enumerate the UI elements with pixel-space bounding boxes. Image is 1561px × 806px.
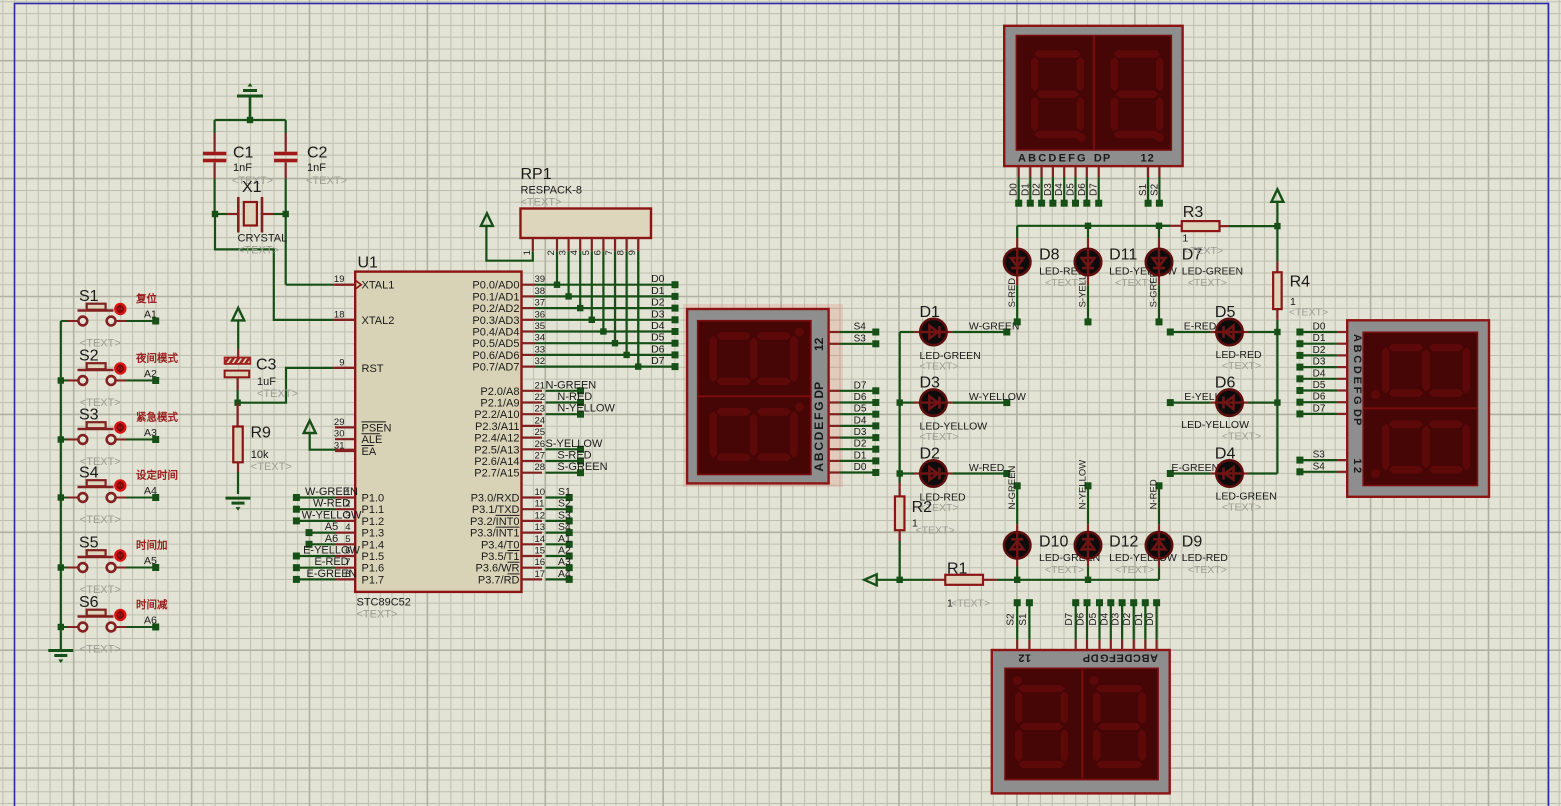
svg-text:W-YELLOW: W-YELLOW [969, 391, 1026, 403]
svg-text:38: 38 [535, 286, 546, 297]
svg-text:LED-RED: LED-RED [1182, 552, 1229, 564]
svg-text:9: 9 [627, 250, 638, 255]
svg-text:S5: S5 [79, 535, 99, 552]
svg-text:10: 10 [535, 487, 546, 498]
svg-text:S4: S4 [854, 322, 867, 333]
svg-text:S3: S3 [854, 333, 867, 344]
svg-text:S3: S3 [1313, 450, 1326, 461]
svg-text:<TEXT>: <TEXT> [1222, 502, 1261, 514]
svg-text:D3: D3 [854, 427, 867, 438]
svg-text:S2: S2 [79, 348, 99, 365]
svg-text:R2: R2 [912, 499, 933, 516]
svg-text:LED-YELLOW: LED-YELLOW [1181, 419, 1249, 431]
svg-text:23: 23 [535, 404, 546, 415]
svg-text:12: 12 [1141, 153, 1155, 165]
svg-text:13: 13 [535, 522, 546, 533]
svg-text:D1: D1 [920, 304, 941, 321]
svg-text:39: 39 [535, 274, 546, 285]
svg-text:16: 16 [535, 557, 546, 568]
svg-text:S2: S2 [558, 498, 571, 510]
svg-text:时间减: 时间减 [136, 598, 168, 611]
svg-text:4: 4 [345, 522, 350, 533]
svg-text:A4: A4 [144, 485, 157, 497]
svg-text:D4: D4 [651, 320, 665, 332]
svg-text:<TEXT>: <TEXT> [357, 609, 398, 621]
svg-text:36: 36 [535, 309, 546, 320]
svg-text:3: 3 [345, 510, 350, 521]
svg-text:P0.3/AD3: P0.3/AD3 [472, 315, 519, 327]
svg-text:D4: D4 [854, 415, 867, 426]
svg-text:6: 6 [592, 250, 603, 255]
svg-text:EA: EA [362, 446, 377, 458]
svg-text:S2: S2 [1006, 613, 1017, 626]
svg-text:A2: A2 [144, 368, 157, 380]
svg-text:35: 35 [535, 321, 546, 332]
svg-text:24: 24 [535, 415, 546, 426]
svg-text:S3: S3 [558, 509, 571, 521]
svg-text:C3: C3 [256, 357, 277, 374]
svg-text:A1: A1 [558, 533, 571, 545]
svg-text:D6: D6 [854, 392, 867, 403]
svg-text:N-YELLOW: N-YELLOW [557, 403, 615, 415]
svg-text:D3: D3 [1043, 183, 1054, 196]
svg-text:P2.6/A14: P2.6/A14 [474, 456, 519, 468]
svg-text:<TEXT>: <TEXT> [920, 361, 959, 373]
svg-text:P0.5/AD5: P0.5/AD5 [472, 338, 519, 350]
svg-text:P2.0/A8: P2.0/A8 [480, 386, 519, 398]
svg-text:PSEN: PSEN [362, 422, 392, 434]
svg-text:7: 7 [345, 557, 350, 568]
svg-text:D12: D12 [1109, 534, 1138, 551]
svg-text:D2: D2 [920, 446, 941, 463]
svg-text:2: 2 [345, 499, 350, 510]
svg-text:<TEXT>: <TEXT> [80, 644, 121, 656]
svg-text:A5: A5 [325, 521, 338, 533]
svg-text:D1: D1 [1134, 612, 1145, 625]
svg-text:N-RED: N-RED [1149, 479, 1160, 509]
svg-text:D7: D7 [854, 380, 867, 391]
svg-text:DP: DP [1094, 153, 1111, 165]
svg-text:12: 12 [1351, 458, 1363, 475]
svg-text:D5: D5 [1313, 380, 1326, 391]
svg-text:夜间模式: 夜间模式 [135, 352, 178, 365]
svg-text:34: 34 [535, 333, 546, 344]
svg-text:设定时间: 设定时间 [136, 469, 178, 482]
svg-text:<TEXT>: <TEXT> [1188, 277, 1227, 289]
svg-text:S6: S6 [79, 594, 99, 611]
svg-text:D1: D1 [1020, 183, 1031, 196]
svg-text:A2: A2 [558, 545, 571, 557]
svg-text:<TEXT>: <TEXT> [306, 175, 347, 187]
svg-text:R1: R1 [947, 561, 968, 578]
svg-text:D10: D10 [1039, 534, 1068, 551]
svg-text:D2: D2 [1032, 183, 1043, 196]
svg-text:D3: D3 [651, 308, 665, 320]
svg-text:A4: A4 [558, 568, 571, 580]
svg-text:D3: D3 [1111, 612, 1122, 625]
svg-text:D7: D7 [651, 355, 665, 367]
svg-text:5: 5 [345, 534, 350, 545]
svg-text:3: 3 [558, 250, 569, 255]
svg-text:D4: D4 [1054, 183, 1065, 196]
svg-text:<TEXT>: <TEXT> [1222, 360, 1261, 372]
svg-text:D0: D0 [1009, 183, 1020, 196]
svg-text:LED-GREEN: LED-GREEN [1182, 266, 1243, 278]
svg-text:P3.4/T0: P3.4/T0 [481, 539, 520, 551]
svg-text:26: 26 [535, 439, 546, 450]
svg-text:XTAL2: XTAL2 [362, 315, 395, 327]
svg-text:D1: D1 [1313, 333, 1326, 344]
svg-text:P2.4/A12: P2.4/A12 [474, 433, 519, 445]
svg-text:R3: R3 [1183, 204, 1204, 221]
svg-text:<TEXT>: <TEXT> [1184, 245, 1223, 257]
svg-text:9: 9 [339, 357, 344, 368]
svg-text:时间加: 时间加 [136, 539, 168, 552]
svg-text:X1: X1 [242, 179, 262, 196]
svg-text:RESPACK-8: RESPACK-8 [521, 185, 583, 197]
svg-text:N-GREEN: N-GREEN [1007, 465, 1018, 509]
svg-text:E-RED: E-RED [314, 556, 348, 568]
svg-text:D5: D5 [1088, 612, 1099, 625]
svg-text:D6: D6 [1076, 612, 1087, 625]
svg-text:19: 19 [334, 274, 345, 285]
svg-text:D3: D3 [1313, 357, 1326, 368]
svg-text:15: 15 [535, 546, 546, 557]
svg-text:25: 25 [535, 427, 546, 438]
svg-text:S4: S4 [79, 465, 99, 482]
svg-text:<TEXT>: <TEXT> [251, 461, 292, 473]
svg-text:29: 29 [334, 417, 345, 428]
svg-text:A1: A1 [144, 308, 157, 320]
svg-text:C1: C1 [233, 145, 254, 162]
svg-text:P3.1/TXD: P3.1/TXD [472, 504, 520, 516]
svg-text:12: 12 [1018, 652, 1031, 664]
svg-text:D0: D0 [1145, 612, 1156, 625]
svg-text:P1.1: P1.1 [362, 504, 385, 516]
svg-text:10k: 10k [251, 449, 269, 461]
svg-text:CRYSTAL: CRYSTAL [238, 233, 288, 245]
svg-text:W-RED: W-RED [969, 462, 1005, 474]
svg-text:P3.6/WR: P3.6/WR [475, 563, 519, 575]
svg-text:D1: D1 [651, 285, 665, 297]
svg-text:RP1: RP1 [521, 166, 552, 183]
svg-text:D0: D0 [854, 462, 867, 473]
svg-text:S-GREEN: S-GREEN [557, 461, 607, 473]
svg-text:P3.0/RXD: P3.0/RXD [471, 493, 520, 505]
svg-text:D5: D5 [651, 332, 665, 344]
svg-text:S2: S2 [1149, 183, 1160, 196]
svg-text:<TEXT>: <TEXT> [951, 598, 990, 610]
svg-text:17: 17 [535, 569, 546, 580]
svg-text:<TEXT>: <TEXT> [1188, 564, 1227, 576]
svg-text:A5: A5 [144, 555, 157, 567]
svg-text:S1: S1 [1018, 613, 1029, 626]
svg-text:A6: A6 [144, 614, 157, 626]
svg-text:P0.1/AD1: P0.1/AD1 [472, 291, 519, 303]
svg-text:ABCDEFG: ABCDEFG [1099, 652, 1158, 664]
svg-text:2: 2 [546, 250, 557, 255]
svg-text:紧急模式: 紧急模式 [136, 411, 178, 424]
svg-text:32: 32 [535, 356, 546, 367]
svg-text:DP: DP [1351, 409, 1363, 426]
svg-text:P0.4/AD4: P0.4/AD4 [472, 327, 519, 339]
svg-text:D5: D5 [854, 404, 867, 415]
svg-text:5: 5 [581, 250, 592, 255]
svg-text:P1.2: P1.2 [362, 516, 385, 528]
svg-text:1: 1 [345, 487, 350, 498]
svg-text:8: 8 [616, 250, 627, 255]
svg-text:S4: S4 [1313, 461, 1326, 472]
svg-text:P2.7/A15: P2.7/A15 [474, 468, 519, 480]
svg-text:<TEXT>: <TEXT> [238, 245, 279, 257]
svg-text:33: 33 [535, 344, 546, 355]
svg-text:<TEXT>: <TEXT> [1222, 431, 1261, 443]
svg-text:1nF: 1nF [307, 162, 326, 174]
svg-text:E-YELLOW: E-YELLOW [303, 545, 360, 557]
svg-text:S4: S4 [558, 521, 571, 533]
svg-text:D6: D6 [651, 343, 665, 355]
svg-text:D6: D6 [1215, 375, 1236, 392]
svg-text:E-GREEN: E-GREEN [1171, 462, 1219, 474]
svg-text:STC89C52: STC89C52 [357, 597, 411, 609]
svg-text:21: 21 [535, 380, 546, 391]
svg-text:22: 22 [535, 392, 546, 403]
svg-text:7: 7 [604, 250, 615, 255]
svg-text:ABCDEFG: ABCDEFG [812, 400, 826, 472]
svg-text:D5: D5 [1066, 183, 1077, 196]
svg-text:D2: D2 [1313, 345, 1326, 356]
svg-text:A3: A3 [144, 427, 157, 439]
svg-text:6: 6 [345, 546, 350, 557]
svg-text:U1: U1 [358, 255, 379, 272]
svg-text:8: 8 [345, 569, 350, 580]
svg-text:C2: C2 [307, 145, 328, 162]
svg-text:S-RED: S-RED [557, 450, 591, 462]
svg-text:A3: A3 [558, 556, 571, 568]
svg-text:W-GREEN: W-GREEN [969, 321, 1020, 333]
svg-text:P3.3/INT1: P3.3/INT1 [470, 528, 520, 540]
svg-text:1nF: 1nF [233, 162, 252, 174]
svg-text:D6: D6 [1077, 183, 1088, 196]
svg-text:D7: D7 [1064, 612, 1075, 625]
svg-text:P3.2/INT0: P3.2/INT0 [470, 516, 520, 528]
svg-text:P0.2/AD2: P0.2/AD2 [472, 303, 519, 315]
svg-text:S1: S1 [1138, 183, 1149, 196]
svg-text:12: 12 [812, 337, 826, 351]
svg-text:A6: A6 [325, 533, 338, 545]
svg-text:37: 37 [535, 298, 546, 309]
svg-text:P1.6: P1.6 [362, 563, 385, 575]
svg-text:28: 28 [535, 462, 546, 473]
svg-text:N-GREEN: N-GREEN [546, 379, 597, 391]
svg-text:P0.6/AD6: P0.6/AD6 [472, 350, 519, 362]
svg-text:R4: R4 [1290, 274, 1311, 291]
svg-text:<TEXT>: <TEXT> [1289, 307, 1328, 319]
svg-text:D5: D5 [1215, 304, 1236, 321]
svg-text:P3.5/T1: P3.5/T1 [481, 551, 520, 563]
svg-text:D2: D2 [854, 439, 867, 450]
svg-text:N-RED: N-RED [557, 391, 592, 403]
svg-text:14: 14 [535, 534, 546, 545]
svg-text:P2.3/A11: P2.3/A11 [475, 421, 519, 433]
svg-text:DP: DP [812, 382, 826, 399]
svg-text:P0.0/AD0: P0.0/AD0 [472, 280, 519, 292]
svg-text:D8: D8 [1039, 247, 1060, 264]
svg-text:D4: D4 [1313, 368, 1326, 379]
svg-text:1: 1 [522, 250, 533, 255]
svg-text:P1.3: P1.3 [362, 528, 385, 540]
svg-text:ABCDEFG: ABCDEFG [1351, 334, 1363, 407]
svg-text:D4: D4 [1215, 446, 1236, 463]
svg-text:<TEXT>: <TEXT> [80, 514, 121, 526]
svg-text:P1.0: P1.0 [362, 493, 385, 505]
svg-text:D4: D4 [1099, 612, 1110, 625]
svg-text:27: 27 [535, 451, 546, 462]
svg-text:D7: D7 [1089, 183, 1100, 196]
svg-text:S-YELLOW: S-YELLOW [546, 438, 603, 450]
svg-text:D7: D7 [1313, 403, 1326, 414]
svg-text:<TEXT>: <TEXT> [1115, 564, 1154, 576]
svg-text:<TEXT>: <TEXT> [920, 431, 959, 443]
svg-text:18: 18 [334, 309, 345, 320]
svg-text:D0: D0 [1313, 322, 1326, 333]
svg-text:N-YELLOW: N-YELLOW [1078, 460, 1089, 510]
svg-text:复位: 复位 [135, 292, 157, 305]
svg-text:P1.4: P1.4 [362, 539, 385, 551]
svg-text:S1: S1 [558, 486, 571, 498]
svg-text:11: 11 [535, 499, 545, 510]
svg-text:E-RED: E-RED [1184, 321, 1217, 333]
svg-text:P2.5/A13: P2.5/A13 [474, 444, 519, 456]
svg-text:D3: D3 [920, 375, 941, 392]
svg-text:DP: DP [1082, 652, 1098, 664]
svg-text:<TEXT>: <TEXT> [521, 197, 562, 209]
svg-text:P1.7: P1.7 [362, 574, 385, 586]
svg-text:D2: D2 [1122, 612, 1133, 625]
svg-text:P0.7/AD7: P0.7/AD7 [472, 362, 519, 374]
svg-text:P1.5: P1.5 [362, 551, 385, 563]
svg-text:RST: RST [362, 363, 384, 375]
svg-text:4: 4 [569, 250, 580, 255]
svg-text:D2: D2 [651, 297, 665, 309]
svg-text:1uF: 1uF [257, 376, 276, 388]
svg-text:<TEXT>: <TEXT> [916, 525, 955, 537]
svg-text:<TEXT>: <TEXT> [1045, 564, 1084, 576]
svg-text:ABCDEFG: ABCDEFG [1018, 153, 1088, 165]
svg-text:XTAL1: XTAL1 [362, 280, 395, 292]
svg-text:P2.1/A9: P2.1/A9 [480, 398, 519, 410]
svg-text:S-RED: S-RED [1007, 278, 1018, 308]
svg-text:P2.2/A10: P2.2/A10 [474, 409, 519, 421]
svg-text:1: 1 [1182, 233, 1188, 245]
svg-text:D9: D9 [1182, 534, 1203, 551]
svg-text:D0: D0 [651, 273, 665, 285]
svg-text:R9: R9 [251, 425, 272, 442]
svg-text:W-YELLOW: W-YELLOW [302, 509, 362, 521]
svg-text:D11: D11 [1109, 247, 1137, 264]
svg-text:ALE: ALE [362, 434, 383, 446]
svg-text:D6: D6 [1313, 392, 1326, 403]
svg-text:P3.7/RD: P3.7/RD [478, 574, 520, 586]
svg-text:D1: D1 [854, 450, 867, 461]
svg-text:S3: S3 [79, 407, 99, 424]
svg-text:<TEXT>: <TEXT> [257, 388, 298, 400]
svg-text:30: 30 [334, 429, 345, 440]
svg-text:S1: S1 [79, 288, 99, 305]
svg-text:12: 12 [535, 510, 546, 521]
